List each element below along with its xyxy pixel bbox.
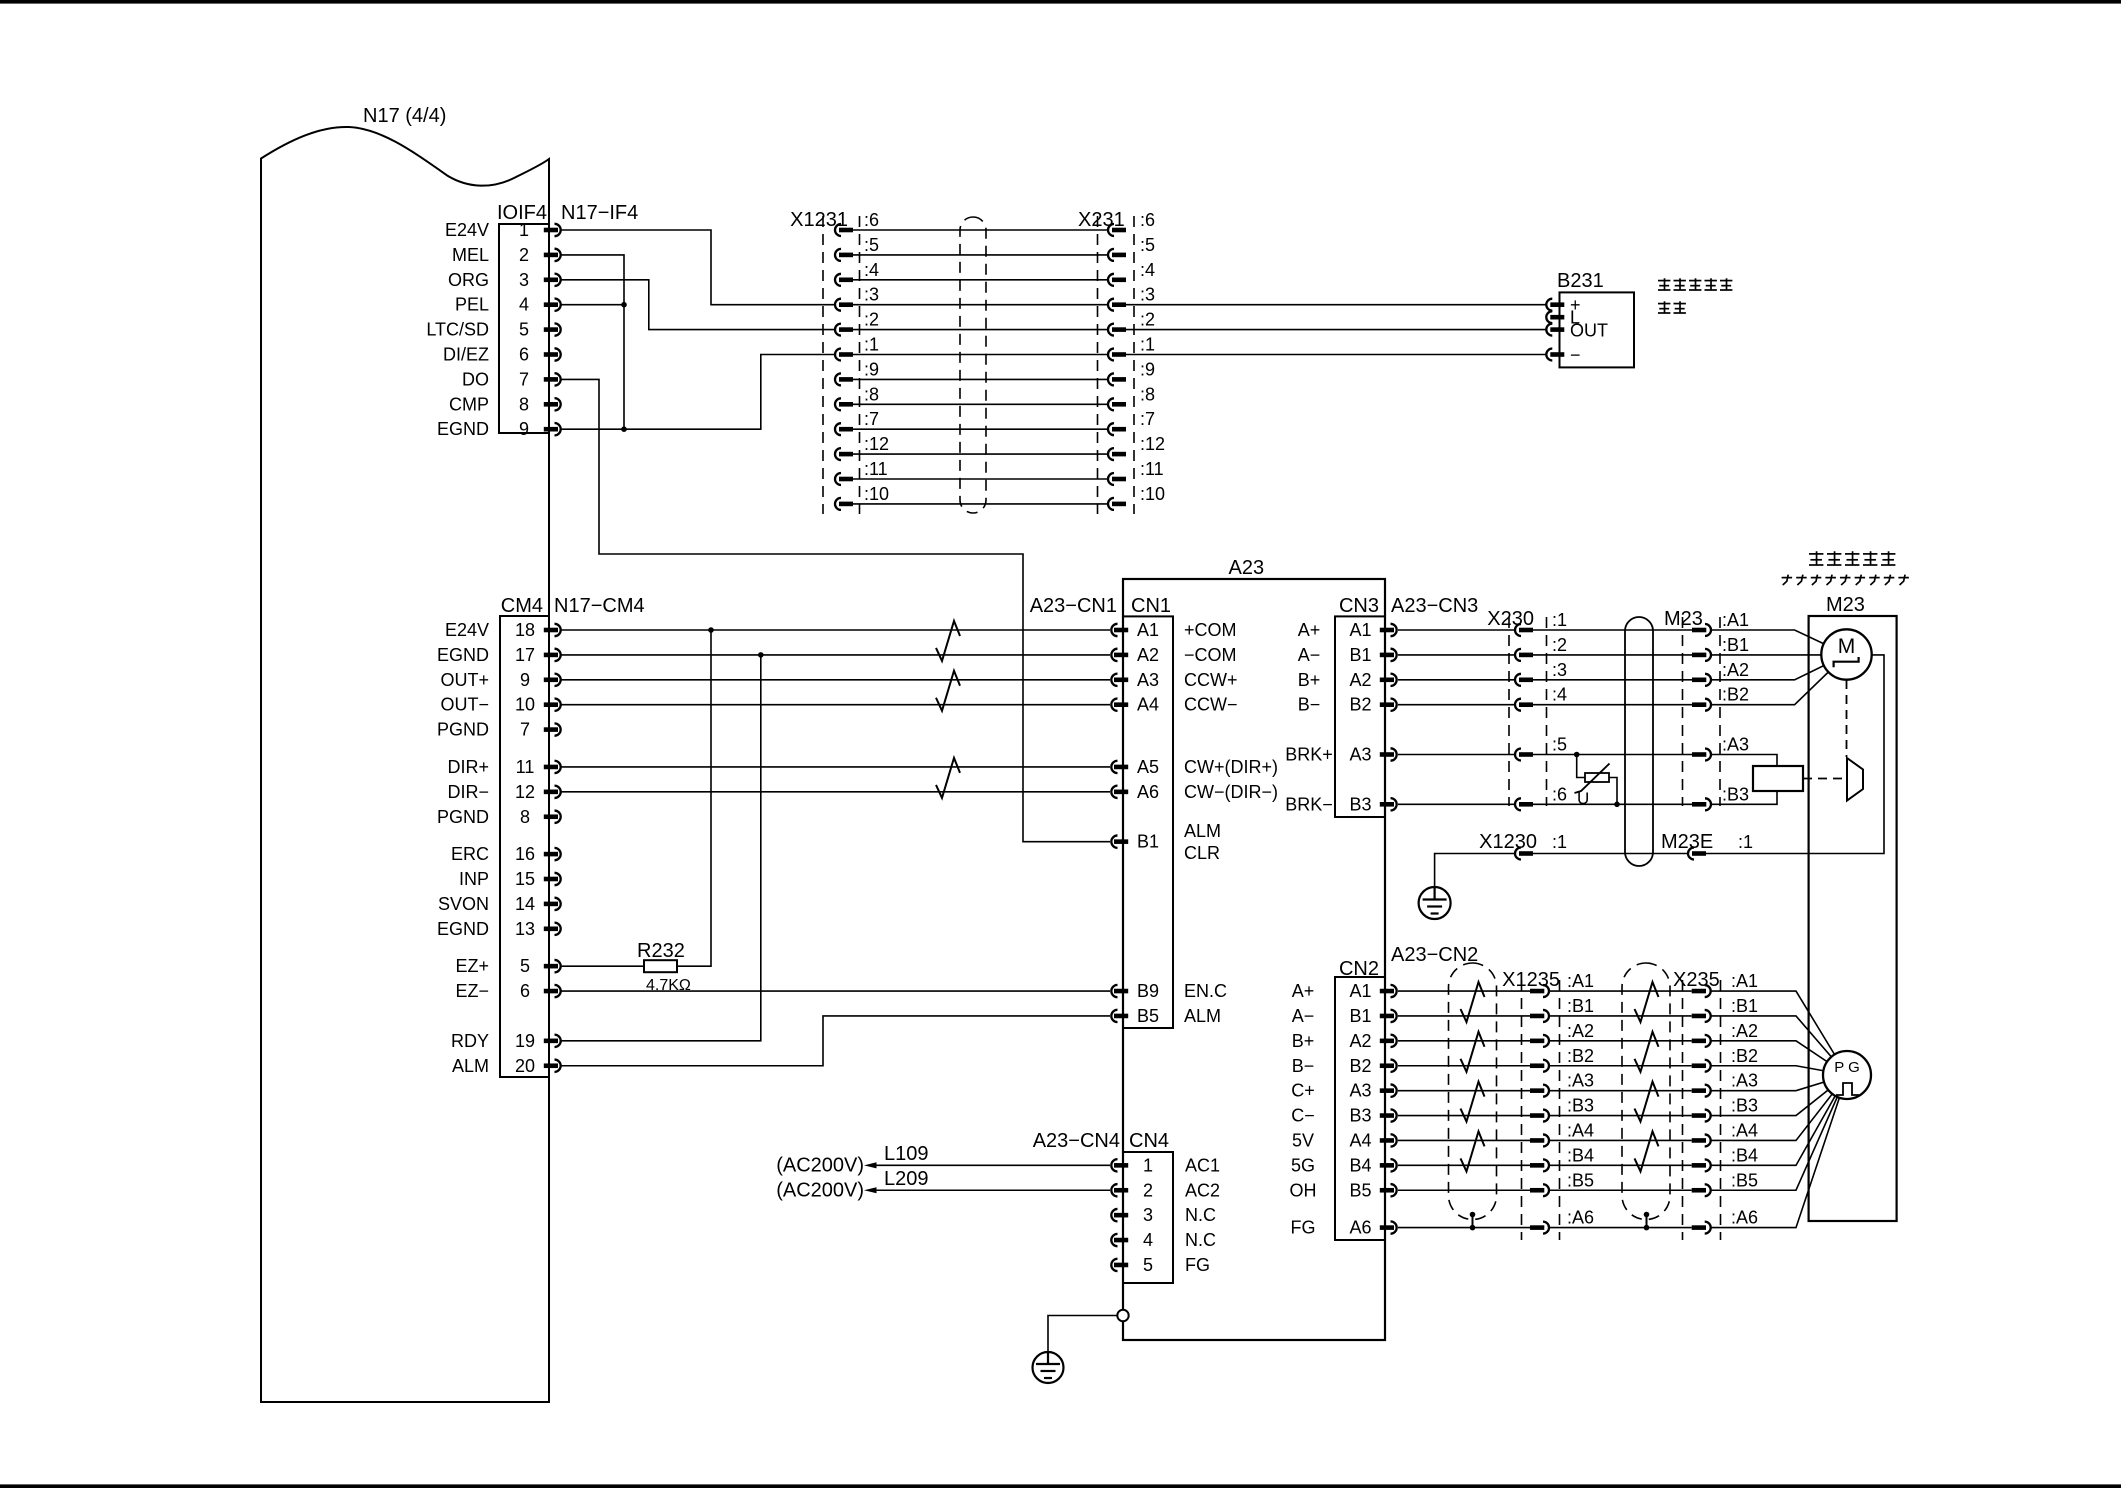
- svg-text::B3: :B3: [1722, 784, 1749, 804]
- svg-text:−: −: [1570, 345, 1581, 365]
- svg-text:EN.C: EN.C: [1184, 981, 1227, 1001]
- svg-text:FG: FG: [1185, 1255, 1210, 1275]
- svg-text:CW+(DIR+): CW+(DIR+): [1184, 757, 1278, 777]
- svg-text:A6: A6: [1349, 1218, 1371, 1238]
- svg-text:8: 8: [519, 394, 529, 414]
- svg-text:B4: B4: [1349, 1155, 1371, 1175]
- cable X230 boundary dashed lines: [1508, 617, 1510, 806]
- note motor axis kanji: [1809, 553, 1823, 555]
- svg-text::A2: :A2: [1722, 660, 1749, 680]
- page top border bar: [0, 0, 2121, 4]
- svg-text::B3: :B3: [1567, 1096, 1594, 1116]
- svg-text::B1: :B1: [1722, 635, 1749, 655]
- svg-text::8: :8: [1140, 384, 1155, 404]
- svg-text:INP: INP: [459, 869, 489, 889]
- svg-text:BRK+: BRK+: [1285, 745, 1333, 765]
- note B231 origin kanji: [1658, 303, 1670, 305]
- svg-text::9: :9: [1140, 359, 1155, 379]
- svg-text:2: 2: [519, 245, 529, 265]
- connector CN2 box: [1335, 977, 1385, 1240]
- wire E24V IOIF4.1 to X1231:3: [561, 230, 835, 305]
- svg-text:P G: P G: [1834, 1059, 1860, 1076]
- svg-text::A3: :A3: [1731, 1071, 1758, 1091]
- svg-text:8: 8: [520, 807, 530, 827]
- svg-text:20: 20: [515, 1056, 535, 1076]
- svg-text:PGND: PGND: [437, 807, 489, 827]
- svg-text:B−: B−: [1298, 695, 1321, 715]
- svg-text::4: :4: [1552, 685, 1567, 705]
- shield drain tap x=1472.5: [1470, 1212, 1476, 1218]
- connector CN1 pins: [1111, 624, 1128, 1022]
- svg-text::B1: :B1: [1567, 996, 1594, 1016]
- page bottom border bar: [0, 1484, 2121, 1488]
- svg-text:X235: X235: [1673, 969, 1720, 991]
- svg-text:M23: M23: [1826, 594, 1865, 616]
- svg-text:ALM: ALM: [452, 1056, 489, 1076]
- svg-text:+COM: +COM: [1184, 620, 1237, 640]
- svg-text:X1230: X1230: [1479, 831, 1537, 853]
- wires CN3 to X230: [1398, 630, 1515, 804]
- svg-text:L109: L109: [884, 1143, 929, 1165]
- svg-text:B231: B231: [1557, 270, 1604, 292]
- connector X1235 pins: [1530, 985, 1549, 1234]
- twisted pair markers capsule x=1646.5: [1635, 982, 1659, 1171]
- svg-text:E24V: E24V: [445, 620, 489, 640]
- svg-text:1: 1: [1143, 1155, 1153, 1175]
- svg-text:4: 4: [1143, 1230, 1153, 1250]
- note B231 axis kanji: [1658, 280, 1670, 282]
- svg-text:L209: L209: [884, 1168, 929, 1190]
- svg-text:CCW−: CCW−: [1184, 695, 1238, 715]
- svg-text::B3: :B3: [1731, 1096, 1758, 1116]
- wire RDY CM4.19 to EGND tie: [561, 655, 761, 1041]
- svg-text:M23: M23: [1664, 608, 1703, 630]
- svg-text:LTC/SD: LTC/SD: [426, 320, 489, 340]
- svg-text::4: :4: [864, 260, 879, 280]
- svg-text:R232: R232: [637, 940, 685, 962]
- wire ALM CM4.20 to CN1.B5: [561, 1016, 1110, 1066]
- svg-text:CM4: CM4: [501, 595, 543, 617]
- svg-text:OUT−: OUT−: [440, 695, 489, 715]
- svg-text::A3: :A3: [1722, 735, 1749, 755]
- svg-text::B4: :B4: [1731, 1145, 1758, 1165]
- svg-text::1: :1: [864, 335, 879, 355]
- svg-text::A2: :A2: [1731, 1021, 1758, 1041]
- svg-text:−COM: −COM: [1184, 645, 1237, 665]
- X231 pin labels: [1140, 210, 1165, 504]
- svg-text:3: 3: [1143, 1205, 1153, 1225]
- twisted pair marker DIR pair: [936, 758, 960, 798]
- CN4 function labels: [1185, 1155, 1220, 1275]
- wire OUT+ CM4.9 to CN1.A3: [561, 679, 1110, 681]
- CN1 pin name labels: [1137, 620, 1159, 1026]
- svg-text:M23E: M23E: [1661, 831, 1713, 853]
- cable X1230-M23E wire: [1533, 853, 1688, 855]
- X230 pin labels: [1552, 610, 1567, 804]
- svg-text:A−: A−: [1298, 645, 1321, 665]
- svg-text::7: :7: [1140, 409, 1155, 429]
- cable X1231 boundary dashed lines: [822, 216, 824, 514]
- wire FG tap to earth: [1048, 1316, 1117, 1365]
- svg-text::6: :6: [1140, 210, 1155, 230]
- svg-text:A1: A1: [1349, 981, 1371, 1001]
- encoder PG circle: [1823, 1051, 1871, 1099]
- svg-text::10: :10: [864, 484, 889, 504]
- svg-text:C−: C−: [1291, 1106, 1315, 1126]
- connector CN1 box: [1123, 616, 1173, 1028]
- wire EGND CM4.17 to CN1.A2: [561, 654, 1110, 656]
- connector CM4 pins: [544, 624, 561, 1072]
- cable M23 boundary dashed lines: [1682, 617, 1684, 806]
- twisted pair markers capsule x=1472.5: [1461, 982, 1485, 1171]
- svg-text:B2: B2: [1349, 695, 1371, 715]
- svg-text::A1: :A1: [1722, 610, 1749, 630]
- svg-text:CN1: CN1: [1131, 595, 1171, 617]
- svg-text:B5: B5: [1349, 1180, 1371, 1200]
- block A23 box: [1123, 579, 1385, 1340]
- svg-text:A1: A1: [1137, 620, 1159, 640]
- svg-text:FG: FG: [1291, 1218, 1316, 1238]
- svg-text:EGND: EGND: [437, 645, 489, 665]
- svg-text:N.C: N.C: [1185, 1230, 1216, 1250]
- svg-text:B3: B3: [1349, 1106, 1371, 1126]
- note stepping motor katakana: [1782, 577, 1793, 579]
- svg-text:A+: A+: [1298, 620, 1321, 640]
- svg-text::12: :12: [864, 434, 889, 454]
- motor M circle: [1821, 629, 1871, 679]
- svg-text::6: :6: [1552, 784, 1567, 804]
- X1235 pin labels: [1567, 971, 1594, 1228]
- resistor R232: [561, 965, 644, 967]
- svg-text:7: 7: [520, 720, 530, 740]
- svg-text::3: :3: [1552, 660, 1567, 680]
- wire ORG IOIF4.3 to X1231:2: [561, 280, 835, 330]
- connector IOIF4 box: [499, 224, 549, 433]
- svg-text::5: :5: [1552, 735, 1567, 755]
- svg-text:N17−CM4: N17−CM4: [554, 595, 645, 617]
- svg-text:A6: A6: [1137, 782, 1159, 802]
- wire M23:B1 to motor: [1711, 654, 1847, 656]
- svg-text::B4: :B4: [1567, 1145, 1594, 1165]
- svg-text:E24V: E24V: [445, 220, 489, 240]
- connector X235 pins: [1692, 985, 1711, 1234]
- encoder pulse mark: [1836, 1083, 1859, 1095]
- cable X235 boundary dashed lines: [1682, 980, 1684, 1240]
- svg-text:CLR: CLR: [1184, 843, 1220, 863]
- svg-text:B1: B1: [1137, 832, 1159, 852]
- svg-text::B2: :B2: [1722, 685, 1749, 705]
- svg-text::5: :5: [1140, 235, 1155, 255]
- svg-text:U: U: [1577, 789, 1589, 808]
- svg-text::A2: :A2: [1567, 1021, 1594, 1041]
- svg-text:AC2: AC2: [1185, 1180, 1220, 1200]
- svg-text:AC1: AC1: [1185, 1155, 1220, 1175]
- svg-text:5: 5: [520, 956, 530, 976]
- svg-text:RDY: RDY: [451, 1031, 489, 1051]
- connector X230 pins: [1515, 624, 1533, 810]
- connector CN3 box: [1335, 616, 1385, 817]
- wire M23:B2 to motor: [1711, 655, 1847, 705]
- svg-text::11: :11: [864, 459, 888, 479]
- svg-text:11: 11: [516, 757, 535, 777]
- svg-text:CN3: CN3: [1339, 595, 1379, 617]
- svg-text::5: :5: [864, 235, 879, 255]
- wire L209 AC2: [876, 1189, 1110, 1191]
- svg-text:EGND: EGND: [437, 919, 489, 939]
- junction varistor top: [1574, 752, 1580, 758]
- wire EZ- CM4.6 to CN1.B9: [561, 990, 1110, 992]
- connector X231 pins: [1108, 224, 1126, 510]
- CN2 pin name labels: [1349, 981, 1371, 1238]
- svg-text::B1: :B1: [1731, 996, 1758, 1016]
- svg-text:ERC: ERC: [451, 844, 489, 864]
- connector CM4 box: [500, 616, 549, 1077]
- svg-text:DIR+: DIR+: [447, 757, 489, 777]
- svg-text:(AC200V): (AC200V): [776, 1179, 864, 1201]
- svg-text:B1: B1: [1349, 1006, 1371, 1026]
- brake pad wedge: [1847, 758, 1863, 801]
- svg-text::B2: :B2: [1731, 1046, 1758, 1066]
- svg-text:A4: A4: [1349, 1130, 1371, 1150]
- svg-text::9: :9: [864, 359, 879, 379]
- ground A23 earth symbol: [1033, 1352, 1064, 1383]
- svg-text:1: 1: [519, 220, 529, 240]
- svg-text:CW−(DIR−): CW−(DIR−): [1184, 782, 1278, 802]
- svg-text::B5: :B5: [1567, 1170, 1594, 1190]
- svg-text:6: 6: [520, 981, 530, 1001]
- twisted pair marker OUT pair1: [936, 621, 960, 661]
- motor step mark: [1834, 657, 1859, 667]
- svg-text::4: :4: [1140, 260, 1155, 280]
- svg-text:5G: 5G: [1291, 1155, 1315, 1175]
- svg-text:B+: B+: [1298, 670, 1321, 690]
- svg-text:OUT: OUT: [1570, 321, 1608, 341]
- svg-text:N.C: N.C: [1185, 1205, 1216, 1225]
- svg-text:SVON: SVON: [438, 894, 489, 914]
- block B231 box: [1560, 292, 1635, 367]
- wire M23:A3 to brake: [1711, 755, 1778, 767]
- svg-text:ALM: ALM: [1184, 1006, 1221, 1026]
- svg-text:CCW+: CCW+: [1184, 670, 1238, 690]
- wires CN2 to X1235: [1398, 991, 1530, 1228]
- svg-text::3: :3: [864, 285, 879, 305]
- wire M23:A1 to motor: [1711, 630, 1847, 655]
- svg-text:A2: A2: [1349, 670, 1371, 690]
- svg-text::7: :7: [864, 409, 879, 429]
- svg-text::2: :2: [1140, 310, 1155, 330]
- svg-text::1: :1: [1140, 335, 1155, 355]
- svg-text:A+: A+: [1292, 981, 1315, 1001]
- node FG tap circle: [1117, 1310, 1128, 1321]
- M23 connector pin labels: [1722, 610, 1749, 804]
- svg-text::A4: :A4: [1731, 1120, 1758, 1140]
- X1231 pin labels: [864, 210, 889, 504]
- wire X231:3 to B231 +: [1126, 304, 1546, 306]
- svg-text:BRK−: BRK−: [1285, 794, 1333, 814]
- block N17 (4/4) outline: [261, 127, 549, 1402]
- svg-text::A1: :A1: [1567, 971, 1594, 991]
- wire X231:1 to B231 -: [1126, 354, 1546, 356]
- svg-text::10: :10: [1140, 484, 1165, 504]
- svg-text:A5: A5: [1137, 757, 1159, 777]
- ground X1230 earth symbol: [1419, 887, 1451, 919]
- wire M23:A2 to motor: [1711, 655, 1847, 680]
- svg-text:DIR−: DIR−: [447, 782, 489, 802]
- dashed brake link: [1803, 778, 1845, 780]
- brake coil box: [1753, 766, 1803, 791]
- svg-text::1: :1: [1738, 832, 1753, 852]
- connector CN4 box: [1123, 1152, 1173, 1283]
- svg-text::2: :2: [864, 310, 879, 330]
- cable X231 boundary dashed lines: [1097, 216, 1099, 514]
- svg-text:A1: A1: [1349, 620, 1371, 640]
- svg-text:B1: B1: [1349, 645, 1371, 665]
- wire L109 AC1: [876, 1164, 1110, 1166]
- IOIF4 pin numbers: [519, 220, 529, 439]
- CN4 pin numbers: [1143, 1155, 1153, 1275]
- svg-text:9: 9: [520, 670, 530, 690]
- wire M23:B3 to brake: [1711, 791, 1778, 804]
- CN2 signal labels: [1290, 981, 1317, 1238]
- IOIF4 pin name labels: [426, 220, 489, 439]
- svg-text::A6: :A6: [1567, 1208, 1594, 1228]
- svg-text:5V: 5V: [1292, 1130, 1314, 1150]
- connector X1230 pin: [1515, 848, 1521, 860]
- X235 pin labels: [1731, 971, 1758, 1228]
- svg-text:PGND: PGND: [437, 720, 489, 740]
- svg-text:17: 17: [515, 645, 535, 665]
- svg-text:MEL: MEL: [452, 245, 489, 265]
- svg-text:A2: A2: [1137, 645, 1159, 665]
- svg-text:A−: A−: [1292, 1006, 1315, 1026]
- svg-text:6: 6: [519, 345, 529, 365]
- wire OUT- CM4.10 to CN1.A4: [561, 704, 1110, 706]
- svg-text:N17−IF4: N17−IF4: [561, 202, 638, 224]
- wire EGND IOIF4.9 to X1231:1: [561, 355, 835, 430]
- wire X1230 to earth: [1435, 854, 1515, 900]
- svg-text:B3: B3: [1349, 794, 1371, 814]
- svg-text:A3: A3: [1349, 745, 1371, 765]
- shield drain tap x=1646.5: [1644, 1212, 1650, 1218]
- cable X1231-X231 core wires: [853, 230, 1108, 504]
- svg-text:10: 10: [515, 695, 535, 715]
- svg-text:5: 5: [1143, 1255, 1153, 1275]
- B231 pin labels: [1570, 295, 1608, 365]
- svg-text::2: :2: [1552, 635, 1567, 655]
- svg-text::A6: :A6: [1731, 1208, 1758, 1228]
- svg-text::A1: :A1: [1731, 971, 1758, 991]
- svg-text:ORG: ORG: [448, 270, 489, 290]
- svg-text:9: 9: [519, 419, 529, 439]
- connector CN2 pins: [1380, 985, 1397, 1234]
- svg-text:DO: DO: [462, 369, 489, 389]
- dashed shaft below motor: [1846, 680, 1848, 757]
- svg-text::1: :1: [1552, 832, 1567, 852]
- svg-text:PEL: PEL: [455, 295, 489, 315]
- connector CN3 pins: [1380, 624, 1397, 811]
- svg-text::1: :1: [1552, 610, 1567, 630]
- svg-text:12: 12: [515, 782, 535, 802]
- svg-text:M: M: [1838, 635, 1856, 658]
- svg-text:A23: A23: [1229, 557, 1265, 579]
- cable X1235 boundary dashed lines: [1521, 980, 1523, 1240]
- wire E24V CM4.18 to CN1.A1: [561, 629, 1110, 631]
- connector CN4 pins: [1111, 1159, 1128, 1271]
- svg-text:EZ+: EZ+: [455, 956, 489, 976]
- wire DO IOIF4.7 to A23-CN1 B1: [561, 379, 1110, 841]
- connector B231 pins: [1546, 299, 1564, 361]
- svg-text:(AC200V): (AC200V): [776, 1154, 864, 1176]
- svg-text:5: 5: [519, 320, 529, 340]
- cable X1235-X235 core wires: [1549, 991, 1692, 1228]
- junction E24V/R232: [708, 627, 714, 633]
- wire MEL IOIF4.2 vertical tie: [561, 255, 624, 429]
- connector M23E pin: [1688, 848, 1694, 860]
- svg-text:DI/EZ: DI/EZ: [443, 345, 489, 365]
- wire DIR+ CM4.11 to CN1.A5: [561, 766, 1110, 768]
- cable shield capsule X1235-X235: [1622, 963, 1670, 1220]
- svg-text:4: 4: [519, 295, 529, 315]
- connector X1231 pins: [835, 224, 853, 510]
- svg-text:OH: OH: [1290, 1180, 1317, 1200]
- svg-text::B2: :B2: [1567, 1046, 1594, 1066]
- svg-text:A23−CN3: A23−CN3: [1391, 595, 1478, 617]
- svg-text:A4: A4: [1137, 695, 1159, 715]
- svg-text:B9: B9: [1137, 981, 1159, 1001]
- svg-text:A23−CN2: A23−CN2: [1391, 944, 1478, 966]
- wire DIR- CM4.12 to CN1.A6: [561, 791, 1110, 793]
- svg-text:A2: A2: [1349, 1031, 1371, 1051]
- svg-text:OUT+: OUT+: [440, 670, 489, 690]
- cable X230-M23 core wires: [1533, 630, 1692, 804]
- svg-text:CN4: CN4: [1129, 1130, 1169, 1152]
- junction EGND/MEL: [621, 426, 627, 432]
- svg-text:13: 13: [515, 919, 535, 939]
- svg-text:14: 14: [515, 894, 535, 914]
- svg-text::12: :12: [1140, 434, 1165, 454]
- svg-text:A3: A3: [1349, 1081, 1371, 1101]
- wire motor frame to M23E: [1706, 655, 1884, 854]
- svg-text:EZ−: EZ−: [455, 981, 489, 1001]
- svg-text:CN2: CN2: [1339, 958, 1379, 980]
- svg-text:B−: B−: [1292, 1056, 1315, 1076]
- junction varistor bottom: [1614, 802, 1620, 808]
- svg-text:N17 (4/4): N17 (4/4): [363, 105, 446, 127]
- svg-text:B5: B5: [1137, 1006, 1159, 1026]
- svg-text:B+: B+: [1292, 1031, 1315, 1051]
- varistor RV U: [1577, 755, 1585, 778]
- svg-text::6: :6: [864, 210, 879, 230]
- CM4 pin name labels: [437, 620, 489, 1076]
- CN3 signal labels: [1285, 620, 1333, 814]
- svg-text:3: 3: [519, 270, 529, 290]
- wires X235 to PG encoder: [1711, 991, 1847, 1228]
- svg-text:2: 2: [1143, 1180, 1153, 1200]
- svg-text:EGND: EGND: [437, 419, 489, 439]
- junction PEL/MEL: [621, 302, 627, 308]
- block M23 motor box: [1809, 616, 1897, 1221]
- svg-text::11: :11: [1140, 459, 1164, 479]
- svg-text:15: 15: [515, 869, 535, 889]
- svg-text:7: 7: [519, 369, 529, 389]
- cable shield capsule X230-M23: [1625, 617, 1653, 866]
- connector M23 pins: [1692, 624, 1711, 810]
- svg-text::A4: :A4: [1567, 1120, 1594, 1140]
- svg-text:16: 16: [515, 844, 535, 864]
- CM4 pin numbers: [515, 620, 535, 1076]
- junction EGND/RDY: [758, 652, 764, 658]
- wire X231:2 to B231 OUT: [1126, 329, 1546, 331]
